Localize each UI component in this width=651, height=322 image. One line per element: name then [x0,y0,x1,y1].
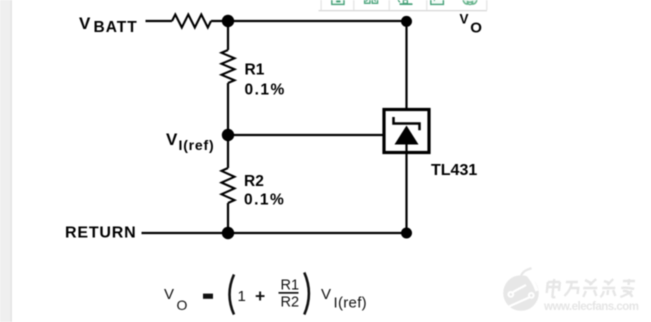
svg-text:0.1%: 0.1% [245,82,286,99]
label VBATT [79,14,138,36]
svg-text:V: V [166,130,178,149]
node VO junction [401,16,412,27]
wire VO node down to TL431 cathode [405,21,407,126]
toolbar separator 2 [353,0,354,10]
svg-text:V: V [164,286,174,303]
zener diode symbol (TL431 internal) cathode bar [394,117,420,130]
resistor R1 (vertical) [222,50,235,83]
toolbar icon (clipped gear) [463,0,477,5]
resistor R2 (vertical) [222,168,235,203]
toolbar icon (clipped restore) [365,0,378,3]
svg-text:O: O [177,297,188,313]
wire RETURN rail [142,232,412,234]
svg-text:0.1%: 0.1% [244,192,285,209]
toolbar separator 4 [426,0,427,10]
toolbar icon (clipped save) [332,0,344,4]
zener diode symbol anode triangle [395,126,419,145]
node VI(ref) junction [222,129,234,141]
wire R2 to RETURN rail [227,203,229,233]
svg-text:V: V [460,12,469,27]
shunt regulator U1 TL431 box [384,110,429,153]
svg-text:R1: R1 [245,62,265,79]
svg-text:RETURN: RETURN [65,225,136,242]
toolbar icon (clipped home) [397,0,412,5]
watermark logo [503,268,539,311]
formula VO = (1 + R1/R2) VI(ref) [164,273,367,315]
left page gutter [0,0,12,322]
watermark chinese glyphs [546,279,635,297]
node top-left junction [222,15,234,27]
toolbar separator 1 [321,0,322,10]
svg-text:V: V [321,286,331,303]
wire top rail to VO node [211,20,407,22]
svg-text:BATT: BATT [94,19,138,36]
wire VI(ref) to TL431 ref pin [228,134,383,136]
svg-text:1: 1 [238,288,246,305]
svg-text:I(ref): I(ref) [179,137,215,153]
label VI(ref) [166,130,214,153]
toolbar bottom border [319,10,488,11]
label VO [460,12,483,37]
wire node to R1 [227,21,229,50]
svg-text:TL431: TL431 [431,162,477,179]
resistor (series, horizontal) [172,15,211,28]
node RETURN-TL431 junction [401,228,412,239]
node RETURN-R2 junction [222,227,234,239]
svg-text:V: V [79,14,91,33]
svg-text:O: O [470,20,482,37]
svg-text:R2: R2 [244,173,264,190]
svg-text:I(ref): I(ref) [334,295,367,312]
svg-text:+: + [255,286,265,306]
svg-text:www.elecfans.com: www.elecfans.com [543,301,639,313]
toolbar separator 3 [389,0,390,10]
wire VBATT to series resistor [146,20,173,22]
wire TL431 anode down to RETURN rail [405,144,407,233]
svg-text:R1: R1 [281,278,300,294]
wire R1 to VI(ref) node [227,83,229,135]
toolbar separator 5 [486,0,487,10]
wire VI(ref) node down to R2 [227,135,229,168]
svg-text:R2: R2 [281,295,300,311]
toolbar icon (clipped window) [431,0,444,4]
